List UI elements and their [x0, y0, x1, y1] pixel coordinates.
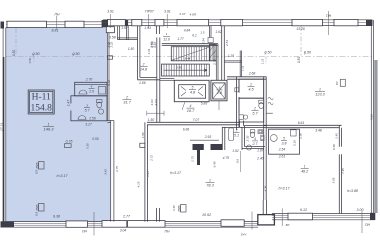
stair flight 1 hatched — [171, 47, 209, 61]
pier — [125, 20, 128, 26]
svg-text:h=3.17: h=3.17 — [278, 187, 290, 191]
svg-text:2.75: 2.75 — [115, 166, 119, 173]
svg-text:13.26: 13.26 — [296, 27, 305, 31]
room H-11 blue fill — [6, 28, 111, 222]
svg-text:4.8: 4.8 — [190, 91, 196, 95]
svg-text:4.84: 4.84 — [184, 28, 191, 32]
basin room 5.7 — [239, 115, 244, 120]
window box A — [7, 21, 47, 27]
svg-text:2.32: 2.32 — [246, 135, 250, 142]
basin right wall room 2.7 — [261, 135, 264, 141]
svg-text:h=3.88: h=3.88 — [347, 189, 358, 193]
room 5/3.8 — [269, 129, 300, 154]
svg-text:1.58: 1.58 — [141, 132, 145, 138]
svg-text:0.9: 0.9 — [35, 212, 39, 217]
right wall lines — [370, 20, 372, 214]
outlet symbol blue room 2 — [39, 204, 45, 212]
bathroom block walls — [75, 82, 107, 96]
svg-text:0.9: 0.9 — [235, 159, 239, 163]
svg-text:78.3: 78.3 — [206, 184, 214, 188]
room 14.8 left wall x137-140 — [137, 26, 139, 80]
svg-text:2.56: 2.56 — [88, 116, 96, 120]
svg-text:4.75: 4.75 — [223, 156, 230, 160]
svg-text:2.22: 2.22 — [110, 41, 114, 48]
svg-text:0.50: 0.50 — [12, 50, 16, 56]
room 2/5.1 walls — [241, 127, 243, 150]
svg-text:4: 4 — [190, 104, 192, 108]
svg-text:2: 2 — [142, 63, 145, 67]
landing bottom wall — [160, 78, 175, 80]
svg-text:1.50: 1.50 — [128, 47, 134, 51]
wall right of H-11 upper (x107.4-109) — [106, 28, 108, 121]
svg-text:5.7: 5.7 — [252, 112, 258, 116]
svg-text:1.53: 1.53 — [144, 26, 151, 30]
bathtub in 5.1 — [229, 128, 234, 141]
svg-text:5.63: 5.63 — [332, 177, 336, 183]
corner pier bottom-right — [370, 213, 375, 220]
svg-text:5.7: 5.7 — [85, 109, 90, 113]
room 2.7 walls — [244, 145, 265, 147]
bottom window box 2 — [128, 221, 166, 228]
corner dashes inside — [181, 87, 203, 97]
wall y77 horizontal over rooms 4.5 — [227, 76, 266, 78]
svg-text:h=3.17: h=3.17 — [56, 174, 68, 178]
svg-text:5: 5 — [283, 137, 285, 141]
svg-text:1.53: 1.53 — [241, 65, 245, 71]
svg-text:3.42: 3.42 — [104, 169, 108, 175]
svg-text:9.66: 9.66 — [369, 114, 373, 120]
svg-text:1.15: 1.15 — [260, 58, 264, 64]
svg-text:3.04: 3.04 — [120, 229, 127, 233]
bottom window box 1b — [102, 221, 127, 228]
svg-text:2.30: 2.30 — [299, 133, 303, 140]
svg-text:7.07: 7.07 — [193, 118, 200, 122]
svg-text:1.5: 1.5 — [200, 30, 205, 34]
svg-text:1.62: 1.62 — [215, 30, 221, 34]
svg-text:4.03: 4.03 — [154, 99, 158, 105]
svg-text:1.97: 1.97 — [121, 26, 128, 30]
svg-text:2.40: 2.40 — [256, 156, 264, 160]
setback dash line horizontal — [6, 56, 372, 58]
door squiggle marks right of wall x266 — [268, 97, 273, 100]
small basin room 4.5 — [235, 88, 239, 92]
svg-text:1.77: 1.77 — [177, 37, 184, 41]
svg-text:2.16: 2.16 — [293, 140, 297, 147]
wall stub x156-159 at top — [155, 26, 157, 34]
svg-text:12.6: 12.6 — [163, 37, 170, 41]
svg-text:3.91: 3.91 — [107, 10, 114, 14]
top wall right section — [103, 19, 372, 21]
door gap left wall lower room — [71, 104, 72, 111]
svg-text:5.83: 5.83 — [201, 102, 208, 106]
svg-text:1.75: 1.75 — [191, 156, 195, 162]
column symbol blue room — [65, 144, 72, 148]
bottom wall step block (outlined) — [258, 215, 275, 225]
bottom wall right section — [272, 213, 375, 215]
svg-text:h=3.17: h=3.17 — [170, 171, 182, 175]
pier x96 — [102, 20, 108, 27]
svg-text:123.3: 123.3 — [315, 93, 325, 97]
svg-text:1.47: 1.47 — [66, 100, 70, 106]
svg-text:1.66: 1.66 — [139, 81, 146, 85]
RU panel symbol right room — [340, 79, 345, 86]
wall stub below x198 — [197, 150, 200, 165]
window box I — [334, 19, 358, 25]
svg-text:ПН: ПН — [365, 223, 370, 227]
bottom window box 1 — [66, 221, 88, 227]
bottom window box right — [288, 213, 313, 220]
svg-text:17.21: 17.21 — [0, 123, 4, 131]
svg-text:2: 2 — [235, 129, 238, 133]
flight 1 diagonal — [172, 47, 210, 60]
sink lower room — [78, 116, 86, 120]
svg-text:146.3: 146.3 — [43, 127, 54, 132]
svg-text:0.76: 0.76 — [66, 139, 73, 143]
door gaps wall x239 — [239, 93, 241, 98]
svg-text:Н-11: Н-11 — [32, 93, 51, 103]
svg-text:ПН: ПН — [165, 230, 170, 234]
hollow pier box + 0.58 label — [106, 27, 114, 33]
window box B — [65, 21, 84, 27]
svg-text:2.8: 2.8 — [216, 91, 222, 95]
svg-text:4.15: 4.15 — [137, 181, 141, 187]
svg-text:1: 1 — [250, 83, 252, 87]
svg-text:ПР07: ПР07 — [145, 10, 154, 14]
toilet lower room — [97, 100, 103, 103]
svg-text:9.38: 9.38 — [53, 215, 60, 219]
window box D — [132, 19, 142, 25]
bottom window box 3 — [221, 220, 244, 227]
svg-text:0.50: 0.50 — [92, 137, 98, 141]
dim line 1.50 — [147, 112, 164, 114]
svg-text:1.35: 1.35 — [228, 54, 234, 58]
svg-text:1.21: 1.21 — [146, 171, 150, 177]
room 2/5.7 — [239, 98, 264, 122]
svg-text:ПН: ПН — [326, 14, 331, 18]
svg-text:3: 3 — [86, 104, 88, 108]
sink top room — [79, 90, 87, 94]
svg-text:6.12: 6.12 — [300, 208, 307, 212]
stair arrow — [164, 69, 208, 71]
toilet room 2.7 — [250, 130, 255, 133]
svg-text:6.61: 6.61 — [298, 121, 305, 125]
window box E — [155, 19, 164, 25]
door leaf on wall x146 — [140, 143, 145, 147]
basin lower room — [98, 109, 103, 114]
svg-text:2.72: 2.72 — [212, 59, 216, 66]
wall y125.6-127.4 over room 2.7 — [244, 125, 267, 127]
svg-text:6: 6 — [219, 86, 221, 90]
H-11 label box (double border) — [28, 90, 54, 114]
wall x223 vertical — [221, 127, 223, 150]
outlet symbol middle room — [181, 205, 187, 213]
svg-text:2.68: 2.68 — [248, 72, 256, 76]
svg-text:0.50: 0.50 — [86, 143, 90, 149]
svg-text:1.52: 1.52 — [232, 149, 239, 153]
svg-text:3.17: 3.17 — [85, 123, 92, 127]
wall 6.61 y125-127.5 — [264, 124, 342, 126]
room 1/4.5 — [239, 79, 264, 98]
window box F — [177, 19, 209, 25]
svg-text:3.91: 3.91 — [164, 10, 171, 14]
svg-text:1.51: 1.51 — [147, 48, 151, 54]
window box H — [292, 19, 323, 25]
wall right of H-11 lower (x110.7-114) — [110, 121, 112, 222]
svg-text:2.93: 2.93 — [204, 135, 212, 139]
svg-text:0.45: 0.45 — [172, 205, 176, 211]
jog stub x239.5-243.5 — [239, 121, 241, 128]
svg-text:1.87: 1.87 — [257, 149, 264, 153]
svg-text:4: 4 — [254, 137, 256, 141]
wall x222 vertical from top wall to elevator block — [221, 26, 223, 81]
svg-text:5.42: 5.42 — [107, 80, 111, 86]
svg-text:5УЧ: 5УЧ — [241, 232, 248, 236]
left wall — [2, 23, 4, 57]
bottom wall left section — [6, 221, 258, 223]
window box G — [221, 19, 243, 25]
svg-text:3.00: 3.00 — [357, 208, 364, 212]
svg-text:4.8П: 4.8П — [190, 13, 197, 17]
small box near shaft — [208, 38, 213, 43]
corner pier top-left — [1, 22, 5, 29]
elevator shaft right with X — [211, 80, 227, 101]
wall x339-341.6 down with door gap — [338, 125, 340, 147]
stair top wall y43.7-45.4 — [162, 43, 218, 45]
small closet x117.5-137.5 under top wall — [116, 26, 118, 40]
vent shaft hatched — [210, 45, 217, 61]
wall right of shaft x216-218 — [215, 44, 217, 81]
stair hall left wall — [156, 38, 158, 123]
small box symbol room 2.7 — [258, 130, 263, 134]
room 14.8 bottom wall y77.4-79.8 — [138, 79, 160, 81]
svg-text:2.77: 2.77 — [122, 214, 131, 218]
svg-text:2.7: 2.7 — [252, 142, 259, 146]
svg-text:5.88: 5.88 — [176, 65, 182, 69]
top wall left section (over H-11) — [6, 21, 103, 23]
pilaster bump on H-11 wall — [107, 56, 112, 59]
square fixture top room — [99, 87, 106, 95]
corridor wall y122-125 — [147, 121, 240, 123]
wall x146 down to bottom — [144, 122, 146, 221]
svg-text:8.81: 8.81 — [52, 29, 59, 33]
svg-text:1: 1 — [304, 165, 306, 169]
setback dash line vertical left — [15, 28, 17, 57]
svg-text:0.50: 0.50 — [332, 144, 336, 150]
svg-text:154.8: 154.8 — [31, 104, 53, 114]
svg-text:3.48: 3.48 — [315, 128, 322, 132]
svg-text:0.58: 0.58 — [109, 36, 116, 40]
svg-text:2: 2 — [253, 107, 256, 111]
svg-text:5.44: 5.44 — [185, 57, 191, 61]
right wall of rooms column x264-266 — [263, 77, 265, 200]
svg-text:1.50: 1.50 — [148, 118, 155, 122]
stair flight 2 hatched — [162, 64, 210, 76]
svg-text:2.6: 2.6 — [88, 90, 94, 94]
svg-text:2.94: 2.94 — [201, 38, 205, 45]
svg-text:2: 2 — [125, 96, 128, 100]
svg-text:4.36: 4.36 — [264, 185, 268, 191]
svg-text:2.54: 2.54 — [278, 148, 286, 152]
svg-text:31.7: 31.7 — [123, 101, 131, 105]
corner pier bottom-left — [1, 221, 15, 227]
svg-text:2.54: 2.54 — [225, 40, 229, 47]
svg-text:ПН: ПН — [55, 13, 60, 17]
svg-text:2.61: 2.61 — [278, 155, 286, 159]
small room right wall x241 — [239, 51, 241, 77]
wall stub x210 — [209, 26, 211, 38]
svg-text:1: 1 — [166, 32, 168, 36]
svg-text:7.35: 7.35 — [341, 168, 345, 174]
right neighbor building gray wall — [374, 60, 377, 213]
basin circle under room 2.7 — [246, 145, 251, 150]
toilet room 5.7 — [259, 100, 264, 103]
svg-text:14.8: 14.8 — [140, 68, 147, 72]
svg-text:6.1: 6.1 — [192, 34, 197, 38]
wall face line over thick wall — [190, 139, 219, 141]
setback dash line vertical right — [300, 26, 302, 57]
window box C — [108, 19, 126, 25]
svg-text:5.1: 5.1 — [234, 134, 239, 138]
svg-text:4.5: 4.5 — [248, 88, 254, 92]
svg-text:2.70: 2.70 — [85, 78, 93, 82]
svg-text:6.96: 6.96 — [183, 127, 190, 131]
svg-text:1.45: 1.45 — [335, 133, 339, 139]
svg-text:0.50: 0.50 — [297, 57, 301, 63]
svg-text:ПН: ПН — [82, 229, 87, 233]
svg-text:16.7: 16.7 — [187, 109, 195, 113]
elevator machine room U-left — [174, 80, 209, 101]
wall x237 vertical — [236, 77, 238, 130]
svg-text:4: 4 — [91, 85, 93, 89]
outlet symbol blue room 1 — [39, 162, 45, 170]
thick wall y144-150 with door — [193, 144, 204, 150]
vertical dash seg + 1.15 — [265, 57, 267, 65]
svg-text:5: 5 — [192, 86, 194, 90]
small room above 4.5: wall y61 — [224, 60, 241, 62]
svg-text:6.48: 6.48 — [213, 161, 217, 167]
svg-text:3.8: 3.8 — [282, 142, 287, 146]
svg-text:1: 1 — [319, 88, 321, 92]
svg-text:48.2: 48.2 — [301, 170, 308, 174]
svg-text:0.50: 0.50 — [28, 57, 32, 63]
svg-text:3.44: 3.44 — [153, 42, 157, 48]
svg-text:10.52: 10.52 — [202, 213, 211, 217]
pier top-right corner — [366, 20, 373, 26]
leader lines below elevators — [182, 102, 185, 110]
svg-text:2.72: 2.72 — [149, 155, 153, 162]
svg-text:1: 1 — [209, 179, 211, 183]
svg-text:3.37: 3.37 — [179, 12, 185, 16]
svg-text:0.9: 0.9 — [35, 170, 39, 175]
